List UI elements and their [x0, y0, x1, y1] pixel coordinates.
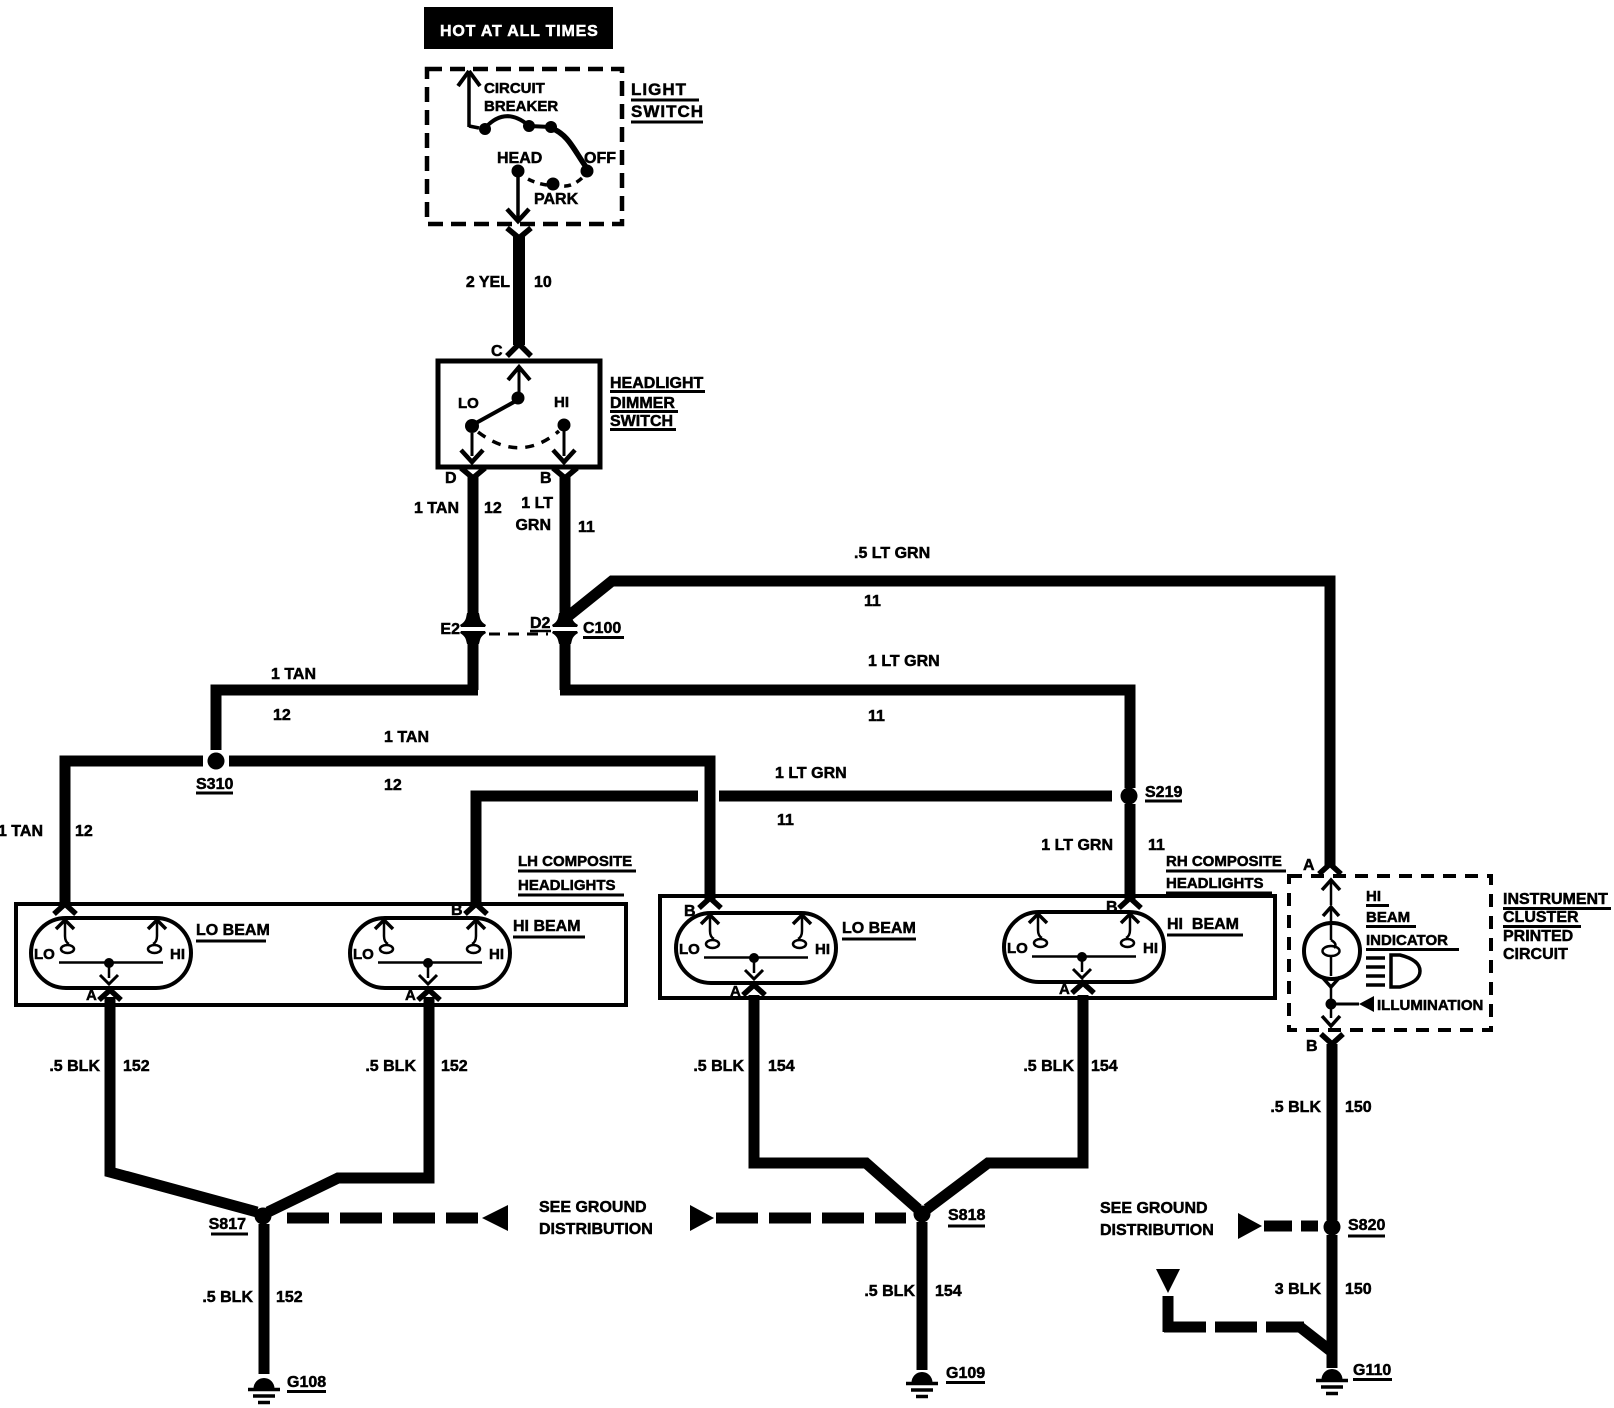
svg-text:11: 11	[1148, 837, 1165, 854]
see ground distribution label right	[1100, 1200, 1214, 1239]
contact OFF	[581, 150, 617, 178]
svg-text:1 TAN: 1 TAN	[271, 666, 316, 683]
splice S817	[209, 1208, 272, 1235]
svg-text:150: 150	[1345, 1281, 1372, 1298]
svg-text:HI: HI	[1366, 888, 1381, 905]
splice S818	[914, 1206, 986, 1227]
svg-text:1 LT GRN: 1 LT GRN	[775, 765, 847, 782]
svg-text:DISTRIBUTION: DISTRIBUTION	[1100, 1222, 1214, 1239]
svg-text:1 LT GRN: 1 LT GRN	[868, 653, 940, 670]
RH composite headlights box	[660, 853, 1286, 998]
svg-text:SWITCH: SWITCH	[610, 413, 673, 430]
svg-text:D: D	[445, 470, 457, 487]
svg-text:3 BLK: 3 BLK	[1275, 1281, 1322, 1298]
headlight dimmer switch box	[438, 361, 600, 467]
contact HEAD	[497, 150, 547, 185]
svg-text:BEAM: BEAM	[1366, 909, 1410, 926]
svg-text:G109: G109	[946, 1365, 985, 1382]
splice S310	[196, 753, 233, 794]
bulb output arrow	[1322, 977, 1340, 999]
svg-text:HEADLIGHTS: HEADLIGHTS	[1166, 875, 1264, 892]
instrument cluster output arrow	[1322, 1008, 1340, 1026]
svg-text:154: 154	[935, 1283, 962, 1300]
svg-text:11: 11	[578, 519, 595, 536]
dimmer LO output arrow	[461, 433, 483, 462]
wire 1 LT GRN 11 from LH hi beam to S219	[476, 765, 1112, 903]
LH hi beam headlamp	[350, 902, 585, 1004]
svg-text:PARK: PARK	[534, 191, 579, 208]
svg-text:S820: S820	[1348, 1217, 1385, 1234]
wire .5 BLK 154 from S818 to G109	[864, 1222, 961, 1370]
RH lo beam headlamp	[676, 898, 916, 1000]
wire 1 TAN 12 left branch	[0, 761, 203, 903]
svg-text:12: 12	[384, 777, 402, 794]
svg-text:152: 152	[441, 1058, 468, 1075]
svg-text:DIMMER: DIMMER	[610, 395, 675, 412]
svg-text:1 LT: 1 LT	[521, 495, 553, 512]
wire .5 BLK 154 from RH hi beam	[927, 995, 1118, 1209]
svg-text:154: 154	[1091, 1058, 1118, 1075]
dimmer HI output arrow	[553, 431, 575, 462]
svg-text:LH COMPOSITE: LH COMPOSITE	[518, 853, 632, 870]
svg-text:HI: HI	[554, 394, 569, 411]
dashed ground distribution wire to S818	[690, 1205, 906, 1231]
svg-text:B: B	[684, 903, 696, 920]
svg-text:12: 12	[484, 500, 502, 517]
svg-text:OFF: OFF	[584, 150, 616, 167]
wire 1 TAN 12 right branch	[229, 729, 710, 899]
ground G109	[906, 1365, 985, 1397]
dimmer HI contact	[554, 394, 571, 432]
terminal D	[445, 470, 457, 487]
light switch output arrow	[507, 177, 529, 221]
contact PARK	[534, 178, 582, 209]
svg-text:B: B	[1106, 899, 1118, 916]
svg-text:S219: S219	[1145, 784, 1182, 801]
svg-text:1 TAN: 1 TAN	[414, 500, 459, 517]
svg-text:PRINTED: PRINTED	[1503, 928, 1573, 945]
svg-text:.5 BLK: .5 BLK	[49, 1058, 100, 1075]
connector C100 dashed body	[489, 633, 548, 636]
instrument cluster terminal A	[1303, 857, 1341, 874]
svg-text:LO: LO	[458, 395, 479, 412]
see ground distribution label left	[539, 1199, 653, 1238]
svg-text:12: 12	[273, 707, 291, 724]
wire .5 BLK 152 from LH hi beam	[268, 997, 468, 1212]
light switch box	[427, 69, 622, 224]
svg-text:C: C	[491, 343, 503, 360]
wire 1 LT GRN 11 from terminal B	[515, 468, 595, 614]
LH lo beam headlamp	[31, 904, 270, 1004]
wire 2 YEL 10	[466, 228, 552, 356]
dashed ground distribution wire to S820	[1238, 1213, 1318, 1239]
circuit breaker element	[479, 116, 557, 135]
svg-text:G110: G110	[1353, 1362, 1391, 1379]
light switch label	[631, 80, 704, 122]
svg-text:LO BEAM: LO BEAM	[842, 920, 916, 937]
svg-text:11: 11	[864, 593, 881, 610]
svg-text:.5 BLK: .5 BLK	[1270, 1099, 1321, 1116]
svg-text:S817: S817	[209, 1216, 246, 1233]
svg-text:A: A	[405, 987, 416, 1004]
svg-text:A: A	[86, 987, 97, 1004]
svg-text:152: 152	[123, 1058, 150, 1075]
svg-text:RH COMPOSITE: RH COMPOSITE	[1166, 853, 1282, 870]
svg-text:D2: D2	[530, 615, 551, 632]
svg-text:BREAKER: BREAKER	[484, 98, 558, 115]
svg-text:.5 BLK: .5 BLK	[202, 1289, 253, 1306]
svg-text:1 LT GRN: 1 LT GRN	[1041, 837, 1113, 854]
wire .5 BLK 154 from RH lo beam	[693, 995, 918, 1209]
svg-text:.5 BLK: .5 BLK	[693, 1058, 744, 1075]
svg-text:C100: C100	[583, 620, 621, 637]
svg-text:HEADLIGHT: HEADLIGHT	[610, 375, 704, 392]
svg-text:SEE GROUND: SEE GROUND	[539, 1199, 647, 1216]
connector C100 cavity E2	[440, 613, 486, 644]
hi beam indicator headlamp icon	[1366, 955, 1420, 987]
hi beam indicator label	[1366, 888, 1459, 950]
hi beam indicator input arrow	[1322, 880, 1340, 940]
svg-text:150: 150	[1345, 1099, 1372, 1116]
svg-text:HI BEAM: HI BEAM	[1167, 916, 1239, 933]
svg-text:S310: S310	[196, 776, 233, 793]
RH hi beam headlamp	[1004, 898, 1243, 998]
svg-text:11: 11	[868, 708, 885, 725]
svg-text:GRN: GRN	[515, 517, 551, 534]
svg-text:HI BEAM: HI BEAM	[513, 918, 581, 935]
ground G110	[1316, 1362, 1392, 1394]
svg-text:SEE GROUND: SEE GROUND	[1100, 1200, 1208, 1217]
svg-text:LO BEAM: LO BEAM	[196, 922, 270, 939]
svg-text:152: 152	[276, 1289, 303, 1306]
svg-text:1 TAN: 1 TAN	[0, 823, 43, 840]
dimmer LO contact	[458, 395, 479, 433]
wire .5 BLK 150 from instrument cluster	[1270, 1044, 1371, 1220]
svg-text:A: A	[1303, 857, 1315, 874]
svg-text:ILLUMINATION: ILLUMINATION	[1377, 997, 1483, 1014]
svg-text:B: B	[451, 902, 463, 919]
wire .5 BLK 152 from LH lo beam	[49, 997, 257, 1212]
svg-text:1 TAN: 1 TAN	[384, 729, 429, 746]
svg-text:CIRCUIT: CIRCUIT	[484, 80, 545, 97]
wire 1 LT GRN 11 from S219 to RH hi beam	[1041, 804, 1165, 899]
connector C100 cavity D2	[530, 613, 624, 644]
svg-text:S818: S818	[948, 1207, 985, 1224]
instrument cluster label	[1503, 891, 1611, 963]
instrument cluster terminal B	[1306, 1034, 1343, 1055]
svg-text:.5 BLK: .5 BLK	[1023, 1058, 1074, 1075]
dashed ground distribution branch at G110	[1156, 1269, 1332, 1352]
dimmer dashed throw arc	[478, 431, 559, 448]
svg-text:10: 10	[534, 274, 552, 291]
headlight dimmer switch label	[610, 375, 705, 430]
svg-text:G108: G108	[287, 1374, 326, 1391]
svg-text:154: 154	[768, 1058, 795, 1075]
svg-text:INDICATOR: INDICATOR	[1366, 932, 1448, 949]
terminal C	[491, 343, 530, 398]
svg-text:CIRCUIT: CIRCUIT	[1503, 946, 1568, 963]
svg-text:CLUSTER: CLUSTER	[1503, 909, 1579, 926]
svg-text:E2: E2	[440, 621, 460, 638]
svg-text:B: B	[540, 470, 552, 487]
circuit breaker label	[484, 80, 558, 115]
svg-text:HEADLIGHTS: HEADLIGHTS	[518, 877, 616, 894]
wire 1 TAN 12 below connector	[216, 643, 478, 750]
wire .5 LT GRN 11 to instrument cluster	[566, 545, 1330, 866]
svg-text:SWITCH: SWITCH	[631, 102, 704, 121]
illumination tap node	[1326, 996, 1484, 1014]
wire 1 TAN 12 from terminal D	[414, 468, 502, 614]
svg-text:HEAD: HEAD	[497, 150, 542, 167]
svg-text:2 YEL: 2 YEL	[466, 274, 510, 291]
svg-text:12: 12	[75, 823, 93, 840]
wire 3 BLK 150 from S820 to G110	[1275, 1235, 1372, 1368]
splice S820	[1324, 1217, 1386, 1236]
svg-text:.5 LT GRN: .5 LT GRN	[854, 545, 930, 562]
svg-text:LIGHT: LIGHT	[631, 80, 687, 99]
svg-text:11: 11	[777, 812, 794, 829]
hi beam indicator bulb	[1304, 923, 1360, 979]
svg-text:.5 BLK: .5 BLK	[864, 1283, 915, 1300]
circuit breaker feed arrow	[458, 71, 480, 128]
LH composite headlights box	[16, 853, 636, 1005]
light switch wiper arm	[551, 128, 586, 167]
terminal B	[540, 470, 552, 487]
splice S219	[1121, 784, 1183, 805]
wire .5 BLK 152 from S817 to G108	[202, 1224, 302, 1374]
hot at all times banner	[424, 7, 613, 49]
svg-text:INSTRUMENT: INSTRUMENT	[1503, 891, 1608, 908]
svg-text:HOT AT ALL TIMES: HOT AT ALL TIMES	[440, 23, 599, 40]
svg-text:B: B	[1306, 1038, 1318, 1055]
wire 1 LT GRN 11 to S219	[560, 643, 1130, 788]
ground G108	[248, 1374, 326, 1403]
svg-text:.5 BLK: .5 BLK	[365, 1058, 416, 1075]
dimmer pivot	[476, 392, 525, 424]
instrument cluster printed circuit box	[1289, 876, 1491, 1030]
dashed ground distribution wire from S817	[287, 1205, 508, 1231]
svg-text:A: A	[1059, 981, 1070, 998]
svg-text:A: A	[730, 983, 741, 1000]
svg-text:DISTRIBUTION: DISTRIBUTION	[539, 1221, 653, 1238]
